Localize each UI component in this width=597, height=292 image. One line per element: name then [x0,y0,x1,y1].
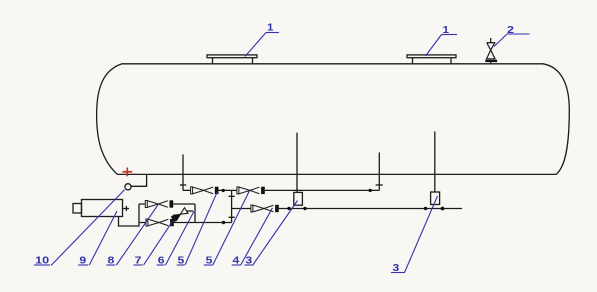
svg-text:3: 3 [393,263,400,274]
leader label 10 [51,190,125,266]
underline label 4 [232,264,241,266]
manhole flange 1 (right) [407,55,456,64]
union tick [180,184,187,186]
leader label 3 right [405,196,438,273]
hose connection 3 (left rectangle) [294,192,303,205]
leader label 6 [166,211,195,265]
union tick [376,184,383,186]
leader label 3 first [253,201,298,266]
svg-text:3: 3 [245,256,252,267]
node: junction dot left of hose connection 3 (right) [424,207,427,210]
union tick upper on mid vertical [229,195,235,197]
pump (label 9) [73,200,129,217]
svg-text:5: 5 [206,256,213,267]
union tick lower on mid vertical [229,216,235,218]
svg-text:7: 7 [135,256,142,267]
svg-text:5: 5 [178,256,185,267]
wire: upper row [183,189,379,191]
underline label 6 [157,264,165,266]
leader label 7 [144,222,172,265]
underline label 3 right [391,272,405,274]
valve 5 (second, upper row) [237,187,265,194]
wire: bypass upper branch [139,203,195,205]
red cursor cross [123,168,133,177]
underline label 1 right [442,34,458,36]
pipe: pump bottom loop [119,204,140,226]
underline label 3 first [245,264,254,266]
svg-text:9: 9 [79,256,86,267]
node: junction dot lower branch [222,221,225,224]
underline label 8 [106,264,115,266]
label underlines [34,33,530,273]
node: junction dot left of hose connection 3 (left) [287,207,290,210]
leader label 5 second [213,191,250,265]
wire: mid vertical connector [231,190,233,222]
pipe from tank at x=297 [296,133,298,193]
leader label 5 first [185,191,218,265]
underline label 1 left [266,32,279,34]
valve 6 stem [187,210,193,212]
node: junction dot near right pipe [369,189,372,192]
underline label 5 first [177,264,185,266]
leader label 1 right [426,35,442,57]
svg-text:2: 2 [507,25,515,36]
valve 6 (angled) [171,208,188,222]
pipe from tank (dip tube) to upper row [182,154,184,190]
pipe: tank outlet to circle fitting [131,174,146,186]
leader label 4 [241,208,273,265]
leader label 8 [116,205,158,265]
underline label 2 [507,33,530,35]
valve 4 (lower row) [251,205,279,212]
leader label 9 [89,211,117,265]
underline label 5 second [204,264,213,266]
wire: lower-right row [232,208,462,210]
svg-text:1: 1 [267,23,274,34]
leader label 1 left [245,33,266,57]
hose connection 3 (right rectangle) [431,192,440,205]
wire: bypass lower branch [139,222,232,224]
valve 7 (lower bypass) [146,219,174,226]
underline label 9 [78,264,88,266]
valve 5 (first, upper row) [191,187,219,194]
underline label 10 [34,264,50,266]
underline label 7 [134,264,143,266]
svg-text:8: 8 [108,256,115,267]
pipe from tank at x=379 [378,153,380,191]
svg-text:10: 10 [35,256,50,267]
svg-text:4: 4 [233,256,240,267]
blue leader lines [51,33,507,273]
wire: bypass frame right vertical [194,204,196,223]
node: junction dot right of hose connection 3 (right) [441,207,445,211]
valve 8 (upper bypass) [145,200,173,207]
node: junction dot upper row [222,189,225,192]
leader label 2 [494,34,507,47]
circle fitting (label 10) [125,184,131,190]
tank shell [97,64,570,175]
safety valve 2 [485,38,497,64]
svg-text:6: 6 [158,256,165,267]
node: junction dot right of hose connection 3 (left) [303,207,306,210]
manhole flange 1 (left) [207,55,257,64]
svg-text:1: 1 [443,25,450,36]
pipe from tank at x=434.8 [434,131,436,192]
